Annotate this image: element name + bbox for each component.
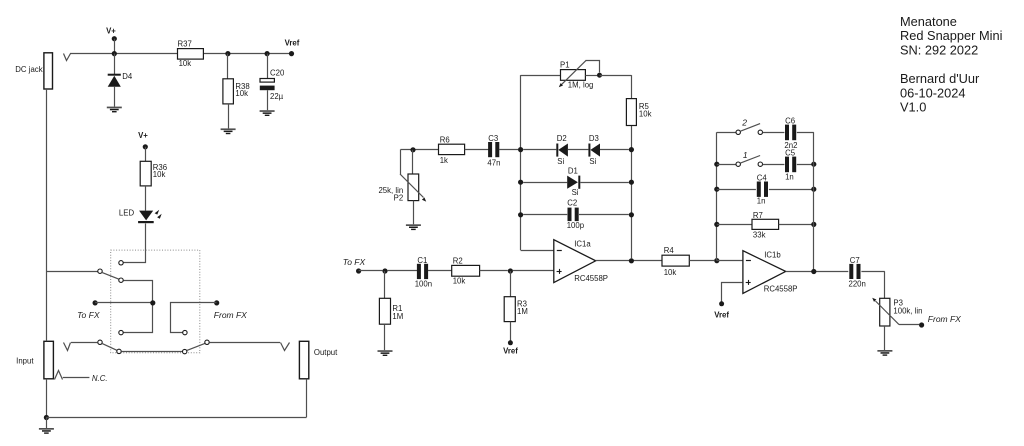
svg-text:Si: Si: [572, 188, 579, 197]
svg-text:100p: 100p: [567, 221, 585, 230]
node Vref (R3): [503, 340, 518, 355]
svg-text:C20: C20: [270, 68, 285, 77]
wire IC1b output: [786, 269, 849, 274]
svg-text:V+: V+: [138, 131, 148, 140]
svg-text:Si: Si: [589, 157, 596, 166]
wire to IC1a noninverting input: [513, 270, 554, 272]
potentiometer P2 25k lin wiring: [401, 147, 439, 174]
node V+ (LED branch): [138, 131, 148, 149]
potentiometer P2 body: [378, 150, 426, 225]
node Vref (IC1b +): [714, 283, 742, 320]
svg-text:1n: 1n: [757, 197, 766, 206]
svg-text:Output: Output: [314, 348, 338, 357]
svg-text:C4: C4: [757, 173, 768, 182]
resistor R4: [662, 246, 714, 277]
svg-text:33k: 33k: [753, 231, 766, 240]
resistor R3: [504, 268, 528, 342]
node From FX (volume wiper): [899, 314, 961, 328]
svg-text:R2: R2: [453, 257, 463, 266]
svg-text:C3: C3: [488, 134, 498, 143]
svg-text:10k: 10k: [664, 268, 677, 277]
svg-text:D3: D3: [589, 134, 599, 143]
ground (main): [39, 418, 54, 434]
svg-text:R37: R37: [178, 39, 192, 48]
svg-text:IC1b: IC1b: [764, 250, 781, 259]
svg-text:DC jack: DC jack: [15, 65, 42, 74]
svg-text:10k: 10k: [453, 277, 466, 286]
node From FX (switch): [171, 300, 248, 335]
svg-text:To FX: To FX: [77, 310, 100, 320]
resistor R37: [178, 39, 204, 68]
wire IC1a inverting input: [521, 250, 554, 252]
ground (P2): [406, 224, 421, 230]
svg-text:Si: Si: [557, 157, 564, 166]
resistor R6: [439, 136, 489, 165]
svg-text:10k: 10k: [235, 89, 248, 98]
svg-text:Vref: Vref: [285, 38, 300, 47]
svg-text:Red Snapper Mini: Red Snapper Mini: [900, 28, 1002, 43]
op-amp IC1b: [743, 250, 798, 293]
diode D1: [518, 166, 634, 197]
svg-text:Input: Input: [16, 357, 34, 366]
ground (R1): [378, 350, 393, 356]
svg-text:To FX: To FX: [343, 257, 366, 267]
resistor R5: [626, 99, 651, 126]
svg-text:1: 1: [743, 150, 748, 160]
wire V+ supply rail: [70, 53, 292, 55]
svg-text:V+: V+: [106, 27, 116, 36]
input jack J2: [16, 341, 98, 379]
potentiometer P3 100k lin (volume): [872, 298, 922, 350]
wire feedback right rail (IC1a): [600, 75, 632, 258]
svg-text:D4: D4: [122, 72, 133, 81]
svg-text:100k, lin: 100k, lin: [893, 306, 922, 315]
svg-text:1M: 1M: [392, 312, 403, 321]
wire feedback right rail (IC1b): [813, 132, 815, 271]
svg-text:2: 2: [741, 118, 747, 128]
svg-text:22µ: 22µ: [270, 92, 284, 101]
op-amp IC1a: [554, 239, 608, 283]
wire IC1b inverting input: [717, 260, 743, 262]
wire ground rail (left): [46, 89, 48, 417]
svg-text:10k: 10k: [639, 110, 652, 119]
svg-text:C6: C6: [785, 116, 795, 125]
svg-text:RC4558P: RC4558P: [574, 274, 608, 283]
svg-text:SN: 292 2022: SN: 292 2022: [900, 42, 978, 57]
svg-text:100n: 100n: [415, 280, 432, 289]
capacitor C4: [714, 173, 816, 205]
wire feedback left rail (IC1a): [520, 75, 522, 250]
svg-text:R6: R6: [440, 136, 450, 145]
ground (C20): [260, 110, 275, 116]
svg-text:C5: C5: [785, 149, 796, 158]
node ground junction: [44, 415, 49, 420]
node Vref (top right of supply): [225, 38, 299, 56]
svg-text:C2: C2: [567, 199, 577, 208]
svg-text:47n: 47n: [487, 159, 500, 168]
DC jack J1: [15, 53, 70, 89]
diode D3: [568, 134, 634, 166]
title block text: [900, 14, 1002, 115]
switch S1 pole 1 (LED/mute): [47, 261, 153, 335]
wire bottom ground return: [46, 379, 307, 418]
svg-text:Menatone: Menatone: [900, 14, 957, 29]
input jack ring N.C. contact: [55, 371, 108, 384]
svg-text:P1: P1: [560, 60, 570, 69]
resistor R36: [140, 147, 167, 211]
svg-text:10k: 10k: [179, 59, 192, 68]
node To FX (switch): [77, 300, 155, 320]
ground (P3): [877, 350, 892, 356]
svg-text:C7: C7: [850, 256, 860, 265]
svg-text:Vref: Vref: [714, 311, 729, 320]
resistor R38: [223, 54, 250, 129]
svg-text:D2: D2: [557, 134, 567, 143]
resistor R1: [379, 271, 403, 350]
capacitor C6: [784, 116, 813, 149]
ground (R38): [221, 128, 236, 134]
resistor R2: [452, 257, 508, 286]
svg-text:1M: 1M: [517, 307, 528, 316]
node V+ (supply): [106, 27, 117, 57]
wire IC1a output: [596, 258, 662, 263]
svg-text:R7: R7: [753, 211, 763, 220]
svg-text:1k: 1k: [440, 156, 448, 165]
potentiometer P1 1M log (gain): [521, 60, 602, 89]
capacitor C7: [849, 256, 885, 298]
ground (D4): [107, 107, 122, 113]
svg-text:1M, log: 1M, log: [568, 80, 594, 89]
svg-text:R4: R4: [664, 246, 675, 255]
diode D4 (reverse protection): [108, 54, 133, 107]
switch 1 (toggle): [714, 150, 784, 167]
svg-text:V1.0: V1.0: [900, 100, 926, 115]
svg-text:D1: D1: [568, 166, 578, 175]
capacitor C3: [487, 134, 523, 168]
wire feedback left rail (IC1b): [714, 132, 719, 263]
capacitor C5: [785, 149, 816, 182]
capacitor C2: [518, 199, 634, 230]
output jack J3: [209, 341, 338, 379]
LED D5 indicator: [119, 208, 162, 223]
svg-text:Bernard d'Uur: Bernard d'Uur: [900, 71, 980, 86]
svg-text:P2: P2: [394, 194, 404, 203]
capacitor C1: [388, 256, 452, 289]
node To FX (amp input): [343, 257, 388, 273]
svg-text:C1: C1: [417, 256, 427, 265]
capacitor C20 (electrolytic 22u): [260, 54, 285, 111]
resistor R7: [714, 211, 816, 240]
svg-text:1n: 1n: [785, 172, 794, 181]
svg-text:LED: LED: [119, 208, 135, 217]
svg-text:220n: 220n: [849, 279, 866, 288]
switch 2 (toggle): [717, 118, 785, 135]
switch S1 pole 2 (input select): [98, 340, 209, 354]
svg-text:N.C.: N.C.: [92, 374, 108, 383]
svg-text:Vref: Vref: [503, 347, 518, 356]
svg-text:RC4558P: RC4558P: [764, 285, 798, 294]
wire LED cathode to switch: [124, 224, 146, 263]
svg-text:From FX: From FX: [928, 314, 961, 324]
svg-text:06-10-2024: 06-10-2024: [900, 85, 965, 100]
diode D2: [523, 134, 568, 166]
svg-text:IC1a: IC1a: [574, 239, 591, 248]
svg-text:10k: 10k: [153, 170, 166, 179]
svg-text:From FX: From FX: [214, 310, 247, 320]
footswitch S1 outline (dotted): [111, 250, 200, 353]
